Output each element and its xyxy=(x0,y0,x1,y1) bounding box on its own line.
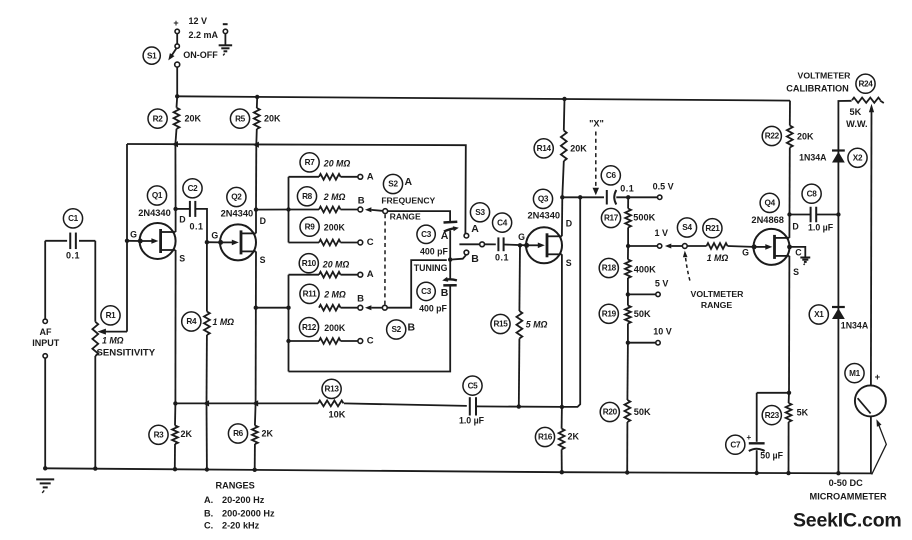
svg-text:R2: R2 xyxy=(153,114,164,123)
svg-text:1 MΩ: 1 MΩ xyxy=(213,317,235,327)
node 5V terminal xyxy=(655,278,669,296)
svg-text:S2: S2 xyxy=(388,180,398,189)
node S3 terminal B xyxy=(464,250,479,265)
svg-text:R11: R11 xyxy=(303,290,317,299)
switch S3 wiper xyxy=(459,203,489,247)
node junction rail-R5-Q2 drain xyxy=(253,142,259,148)
node junction rail-R2-Q1 drain xyxy=(172,141,178,147)
svg-text:MICROAMMETER: MICROAMMETER xyxy=(810,491,887,501)
svg-text:5 V: 5 V xyxy=(655,278,669,288)
resistor R4 1 Mohm xyxy=(182,242,234,403)
node R8 left junction xyxy=(286,207,290,211)
wire Q1 source lead xyxy=(174,250,176,403)
capacitor C4 0.1 xyxy=(493,213,512,262)
diode X2 1N34A xyxy=(799,148,867,167)
svg-text:S: S xyxy=(179,254,185,264)
node Q1 gate junction xyxy=(125,239,129,243)
wire rectifier vertical xyxy=(837,102,839,473)
node 5V junction xyxy=(626,292,630,296)
svg-text:1 MΩ: 1 MΩ xyxy=(707,253,729,263)
wire AF input low side to ground rail xyxy=(44,358,46,468)
wire 5V tap xyxy=(628,293,656,295)
node Q2 source junction to R11 xyxy=(254,306,258,310)
svg-text:A.: A. xyxy=(204,495,213,505)
svg-text:VOLTMETER: VOLTMETER xyxy=(798,70,852,80)
node R17 top junction xyxy=(626,195,630,199)
node Q2 gate junction xyxy=(205,240,209,244)
wire bottom ground rail xyxy=(45,468,872,473)
resistor R7 20 Mohm xyxy=(289,153,358,180)
svg-text:0.1: 0.1 xyxy=(620,183,634,193)
svg-text:M1: M1 xyxy=(849,369,861,378)
node supply rail junction at S1 xyxy=(175,94,179,98)
svg-text:Q4: Q4 xyxy=(765,199,776,208)
switch S2B wiper xyxy=(365,305,387,310)
svg-text:200K: 200K xyxy=(324,222,346,232)
svg-text:B: B xyxy=(358,196,365,207)
ground (supply negative) xyxy=(219,45,233,55)
svg-text:C3: C3 xyxy=(421,230,432,239)
svg-text:2.2 mA: 2.2 mA xyxy=(189,30,219,40)
node Q1 source-R13 junction xyxy=(173,401,177,405)
resistor R15 5 Mohm xyxy=(491,245,548,406)
svg-text:Q1: Q1 xyxy=(152,191,163,200)
svg-text:C: C xyxy=(795,248,802,258)
wire Q4 drain lead xyxy=(788,215,790,238)
svg-text:R9: R9 xyxy=(305,222,316,231)
svg-text:R8: R8 xyxy=(302,192,313,201)
node terminal C upper xyxy=(358,237,374,248)
svg-text:2 MΩ: 2 MΩ xyxy=(323,289,346,299)
svg-text:A: A xyxy=(367,171,374,182)
capacitor C2 0.1 xyxy=(176,179,204,232)
svg-text:S3: S3 xyxy=(475,208,485,217)
wire Q1 drain to rail xyxy=(174,144,176,209)
wire gate to Q2 xyxy=(207,241,221,243)
svg-text:X2: X2 xyxy=(853,153,863,162)
svg-text:C5: C5 xyxy=(468,381,479,390)
svg-text:R16: R16 xyxy=(538,433,553,442)
node - supply terminal xyxy=(223,24,228,33)
svg-text:G: G xyxy=(130,230,137,240)
svg-text:C2: C2 xyxy=(188,184,199,193)
resistor R16 2K xyxy=(535,407,579,473)
svg-text:C1: C1 xyxy=(68,214,79,223)
wire S2B wiper to C3 node xyxy=(387,260,447,308)
capacitor C6 0.1 xyxy=(601,166,634,205)
svg-text:R4: R4 xyxy=(186,317,197,326)
node Q3 gate junction xyxy=(518,243,522,247)
wire Q4 case to ground xyxy=(787,245,805,258)
node R4-R13 wire crossing junction xyxy=(203,400,209,406)
label SeekIC.com watermark xyxy=(793,510,902,532)
svg-text:C3: C3 xyxy=(421,287,432,296)
node R11 left junction xyxy=(286,306,290,310)
svg-text:20 MΩ: 20 MΩ xyxy=(322,260,350,270)
svg-text:S: S xyxy=(260,255,266,265)
svg-text:FREQUENCY: FREQUENCY xyxy=(381,196,435,206)
svg-text:R3: R3 xyxy=(154,430,165,439)
wire R1 wiper to Q1 gate line xyxy=(97,144,127,335)
node R14 top junction xyxy=(562,97,566,101)
svg-text:C: C xyxy=(367,336,374,347)
wire meter callout arrow xyxy=(810,419,887,501)
svg-text:R24: R24 xyxy=(858,79,873,88)
svg-text:"X": "X" xyxy=(589,119,604,129)
node 0.5V terminal xyxy=(653,182,674,200)
svg-text:INPUT: INPUT xyxy=(32,338,60,348)
wire R4 to ground rail xyxy=(206,403,208,469)
svg-text:AF: AF xyxy=(40,327,52,337)
resistor R1 1 Mohm SENSITIVITY potentiometer xyxy=(92,241,155,469)
svg-text:0.1: 0.1 xyxy=(495,252,509,262)
resistor R2 20K xyxy=(148,96,202,144)
switch S1 ON-OFF xyxy=(143,34,218,67)
svg-text:R5: R5 xyxy=(235,114,246,123)
wire Q4 source lead xyxy=(788,256,790,393)
svg-text:50 µF: 50 µF xyxy=(760,451,783,461)
svg-text:A: A xyxy=(441,230,449,242)
svg-text:R20: R20 xyxy=(603,408,618,417)
wire C2 to Q2 gate xyxy=(195,209,207,242)
node Q4 source-R23 junction xyxy=(787,391,791,395)
svg-text:20K: 20K xyxy=(264,113,281,123)
svg-text:0-50 DC: 0-50 DC xyxy=(829,478,864,488)
switch S4 wiper xyxy=(665,218,697,249)
resistor R13 10K xyxy=(175,379,466,419)
svg-text:0.5 V: 0.5 V xyxy=(653,182,674,192)
wire 10V tap xyxy=(628,342,656,344)
svg-text:B: B xyxy=(441,287,449,299)
svg-text:R13: R13 xyxy=(325,385,340,394)
wire Q2 drain to rail xyxy=(255,145,257,210)
capacitor C5 1.0 uF xyxy=(459,376,485,425)
wire Q2 source lead xyxy=(255,251,257,403)
svg-text:1N34A: 1N34A xyxy=(799,152,827,162)
svg-text:200K: 200K xyxy=(324,323,346,333)
resistor R12 200K xyxy=(289,318,358,344)
node terminal B lower xyxy=(357,294,364,310)
svg-text:B: B xyxy=(471,253,479,265)
wire S2 ganged linkage (dashed) xyxy=(384,214,386,304)
label VOLTMETER CALIBRATION xyxy=(786,70,851,93)
resistor R10 20 Mohm xyxy=(289,254,358,278)
svg-text:+: + xyxy=(875,372,881,383)
svg-text:5K: 5K xyxy=(850,107,862,117)
wire S1 to supply rail xyxy=(176,67,178,96)
wire S2A wiper to C3A xyxy=(388,211,450,222)
svg-text:20K: 20K xyxy=(570,144,587,154)
svg-text:R1: R1 xyxy=(106,311,117,320)
wire 1V tap xyxy=(628,245,657,247)
svg-text:2-20 kHz: 2-20 kHz xyxy=(222,521,260,531)
wire S3 wiper to C4 xyxy=(485,243,496,245)
svg-text:400K: 400K xyxy=(634,264,656,274)
label RANGES legend xyxy=(204,481,275,531)
svg-text:VOLTMETER: VOLTMETER xyxy=(691,289,745,299)
svg-text:2K: 2K xyxy=(262,428,274,438)
wire network upper common xyxy=(288,177,290,243)
svg-text:2K: 2K xyxy=(181,429,193,439)
node 10V terminal xyxy=(653,326,672,345)
svg-text:A: A xyxy=(367,269,374,280)
node C3 common junction xyxy=(448,257,452,261)
wire network lower common xyxy=(288,275,290,372)
svg-text:10K: 10K xyxy=(328,409,345,419)
svg-text:R21: R21 xyxy=(705,224,720,233)
wire Q2 drain lead xyxy=(255,210,257,234)
svg-text:5K: 5K xyxy=(797,407,809,417)
svg-text:B: B xyxy=(408,321,416,333)
svg-text:2 MΩ: 2 MΩ xyxy=(323,192,346,202)
node Q3 source junction xyxy=(560,405,564,409)
transistor Q4 2N4868 xyxy=(742,193,802,277)
svg-text:B: B xyxy=(357,294,364,305)
capacitor C8 1.0 uF xyxy=(790,184,834,232)
node Q3 drain node xyxy=(560,195,564,199)
wire R23 to C7 xyxy=(757,392,789,394)
node terminal A lower xyxy=(358,269,374,280)
resistor R9 200K xyxy=(289,217,358,245)
resistor R11 2 Mohm xyxy=(300,284,358,310)
resistor R23 5K xyxy=(762,393,808,473)
svg-text:RANGE: RANGE xyxy=(701,300,733,310)
resistor R14 20K xyxy=(534,99,587,197)
svg-text:20K: 20K xyxy=(797,131,814,141)
resistor R5 20K xyxy=(230,97,281,145)
resistor R18 400K xyxy=(599,246,656,294)
svg-text:R18: R18 xyxy=(602,264,617,273)
ground (Q4 case) xyxy=(800,258,810,265)
svg-text:50K: 50K xyxy=(634,309,651,319)
node Q4 drain node xyxy=(787,212,791,216)
svg-text:1.0 µF: 1.0 µF xyxy=(808,223,834,233)
svg-text:200-2000 Hz: 200-2000 Hz xyxy=(222,508,275,518)
node R15 bottom junction xyxy=(517,404,521,408)
svg-text:C8: C8 xyxy=(807,189,818,198)
node Q2 source R13 crossing junction xyxy=(252,400,258,406)
node terminal C lower xyxy=(358,336,374,347)
svg-text:500K: 500K xyxy=(633,212,655,222)
svg-text:S4: S4 xyxy=(682,223,692,232)
svg-text:R6: R6 xyxy=(233,429,244,438)
svg-text:D: D xyxy=(566,218,572,228)
svg-text:1 V: 1 V xyxy=(654,228,668,238)
svg-text:G: G xyxy=(742,248,749,258)
capacitor C7 50 uF xyxy=(726,393,784,473)
svg-text:C.: C. xyxy=(204,521,213,531)
svg-text:CALIBRATION: CALIBRATION xyxy=(786,83,849,93)
svg-text:RANGES: RANGES xyxy=(216,481,255,491)
switch S2 section A label xyxy=(383,174,412,193)
svg-text:TUNING: TUNING xyxy=(414,263,448,273)
svg-text:S2: S2 xyxy=(391,325,401,334)
diode X1 1N34A xyxy=(809,305,869,330)
resistor R17 500K xyxy=(601,197,655,246)
resistor R24 5K W.W. calibration pot xyxy=(838,74,883,386)
svg-text:SENSITIVITY: SENSITIVITY xyxy=(97,347,156,358)
wire Q3 source lead xyxy=(561,254,563,407)
svg-text:12 V: 12 V xyxy=(189,16,208,26)
resistor R20 50K xyxy=(600,343,651,473)
wire Q3 drain to C6 xyxy=(562,196,604,198)
wire C8 to rectifier line xyxy=(816,214,838,216)
wire output node down to source node xyxy=(562,197,580,407)
svg-text:W.W.: W.W. xyxy=(846,119,867,129)
node 1V terminal xyxy=(654,228,668,248)
node 10V junction xyxy=(626,341,630,345)
svg-text:R22: R22 xyxy=(765,132,780,141)
meter M1 0-50 DC microammeter xyxy=(845,364,886,474)
svg-text:R17: R17 xyxy=(604,214,619,223)
svg-text:G: G xyxy=(518,232,525,242)
node S3 terminal A xyxy=(464,223,479,238)
svg-text:A: A xyxy=(471,223,479,235)
wire C3B bottom to network return xyxy=(289,286,451,372)
svg-text:D: D xyxy=(260,216,266,226)
wire Q2 drain to divider network xyxy=(256,209,289,211)
svg-text:10 V: 10 V xyxy=(653,326,672,336)
svg-text:50K: 50K xyxy=(634,407,651,417)
svg-text:D: D xyxy=(179,215,185,225)
label TUNING xyxy=(414,263,448,273)
svg-text:2N4868: 2N4868 xyxy=(751,215,784,225)
svg-text:G: G xyxy=(211,231,218,241)
svg-text:R23: R23 xyxy=(765,411,780,420)
svg-text:ON-OFF: ON-OFF xyxy=(183,50,218,60)
resistor R6 2K xyxy=(228,403,273,469)
node terminal B upper xyxy=(358,196,365,212)
svg-text:C4: C4 xyxy=(497,218,508,227)
resistor R22 20K xyxy=(762,101,814,215)
node output feedback junction xyxy=(578,195,582,199)
svg-text:1N34A: 1N34A xyxy=(841,320,869,330)
wire - terminal to ground xyxy=(224,34,226,45)
svg-text:RANGE: RANGE xyxy=(390,211,421,221)
svg-text:SeekIC.com: SeekIC.com xyxy=(793,510,902,532)
capacitor C1 0.1 xyxy=(63,209,82,261)
node + 12V supply terminal xyxy=(173,16,218,40)
transistor Q1 2N4340 xyxy=(130,186,185,264)
svg-text:5 MΩ: 5 MΩ xyxy=(526,320,548,330)
svg-text:2N4340: 2N4340 xyxy=(528,211,561,221)
wire Q2 source to R11 row xyxy=(256,307,289,309)
svg-text:C6: C6 xyxy=(606,171,617,180)
svg-text:2N4340: 2N4340 xyxy=(221,208,254,218)
svg-text:0.1: 0.1 xyxy=(66,251,80,261)
svg-text:A: A xyxy=(405,176,413,188)
node R12 left junction xyxy=(286,339,290,343)
wire C3 node to S3 terminal B xyxy=(450,255,466,259)
svg-text:2N4340: 2N4340 xyxy=(138,208,171,218)
resistor R21 1 Mohm xyxy=(687,219,753,263)
svg-text:S1: S1 xyxy=(147,51,157,60)
transistor Q3 2N4340 xyxy=(518,189,572,268)
svg-text:Q3: Q3 xyxy=(538,195,549,204)
switch S2A wiper xyxy=(365,207,388,213)
svg-text:400 pF: 400 pF xyxy=(420,247,448,257)
svg-text:400 pF: 400 pF xyxy=(419,304,447,314)
svg-text:+: + xyxy=(746,433,751,442)
wire C6 to 0.5V terminal xyxy=(616,196,657,198)
svg-text:S: S xyxy=(566,258,572,268)
svg-text:Q2: Q2 xyxy=(231,193,242,202)
node Q1 drain node xyxy=(173,207,177,211)
svg-text:20-200 Hz: 20-200 Hz xyxy=(222,495,265,505)
svg-text:R15: R15 xyxy=(493,320,508,329)
switch S2 section B label xyxy=(387,320,416,339)
node X test point (dashed) xyxy=(589,119,604,196)
svg-text:C7: C7 xyxy=(730,440,741,449)
node terminal A upper xyxy=(358,171,374,182)
resistor R8 2 Mohm xyxy=(289,187,358,213)
svg-text:20 MΩ: 20 MΩ xyxy=(323,159,351,169)
wire Q3 drain lead xyxy=(561,197,563,236)
wire C3A bottom to node xyxy=(449,231,451,260)
label FREQUENCY RANGE xyxy=(381,196,435,222)
svg-text:X1: X1 xyxy=(814,310,824,319)
svg-text:2K: 2K xyxy=(568,432,580,442)
node Q2 drain node xyxy=(254,207,258,211)
wire C5 to source node xyxy=(476,405,562,408)
svg-text:R19: R19 xyxy=(602,309,617,318)
capacitor C3A 400 pF variable xyxy=(417,222,459,257)
node R5 top junction xyxy=(255,95,259,99)
node 1V junction xyxy=(626,244,630,248)
wire C1 to R1 top xyxy=(79,240,95,242)
svg-text:+: + xyxy=(173,18,178,28)
svg-text:1 MΩ: 1 MΩ xyxy=(102,335,124,345)
svg-text:R10: R10 xyxy=(302,259,317,268)
label VOLTMETER RANGE xyxy=(683,251,744,310)
node ground rail junctions xyxy=(43,466,841,475)
transistor Q2 2N4340 xyxy=(211,187,266,264)
svg-text:20K: 20K xyxy=(185,113,202,123)
wire C4 to Q3 gate xyxy=(504,244,527,247)
ground (main) xyxy=(36,479,54,493)
wire Q1 drain lead xyxy=(175,209,177,232)
svg-text:S: S xyxy=(793,267,799,277)
svg-text:B.: B. xyxy=(204,508,213,518)
svg-text:R12: R12 xyxy=(302,323,317,332)
wire top supply rail xyxy=(177,96,790,100)
svg-text:D: D xyxy=(792,222,798,232)
svg-text:C: C xyxy=(367,237,374,248)
svg-text:1.0 µF: 1.0 µF xyxy=(459,415,485,425)
capacitor C3B 400 pF variable xyxy=(417,260,457,314)
svg-text:0.1: 0.1 xyxy=(189,221,203,231)
wire AF input to C1 xyxy=(45,240,67,242)
wire gate feedback rail xyxy=(127,144,466,234)
node rectifier junction xyxy=(836,212,840,216)
svg-text:R7: R7 xyxy=(305,158,316,167)
resistor R19 50K xyxy=(599,294,651,342)
node AF input terminals xyxy=(32,241,60,358)
svg-text:R14: R14 xyxy=(537,144,552,153)
wire gate line to Q1 xyxy=(127,240,141,242)
resistor R3 2K xyxy=(149,403,193,468)
